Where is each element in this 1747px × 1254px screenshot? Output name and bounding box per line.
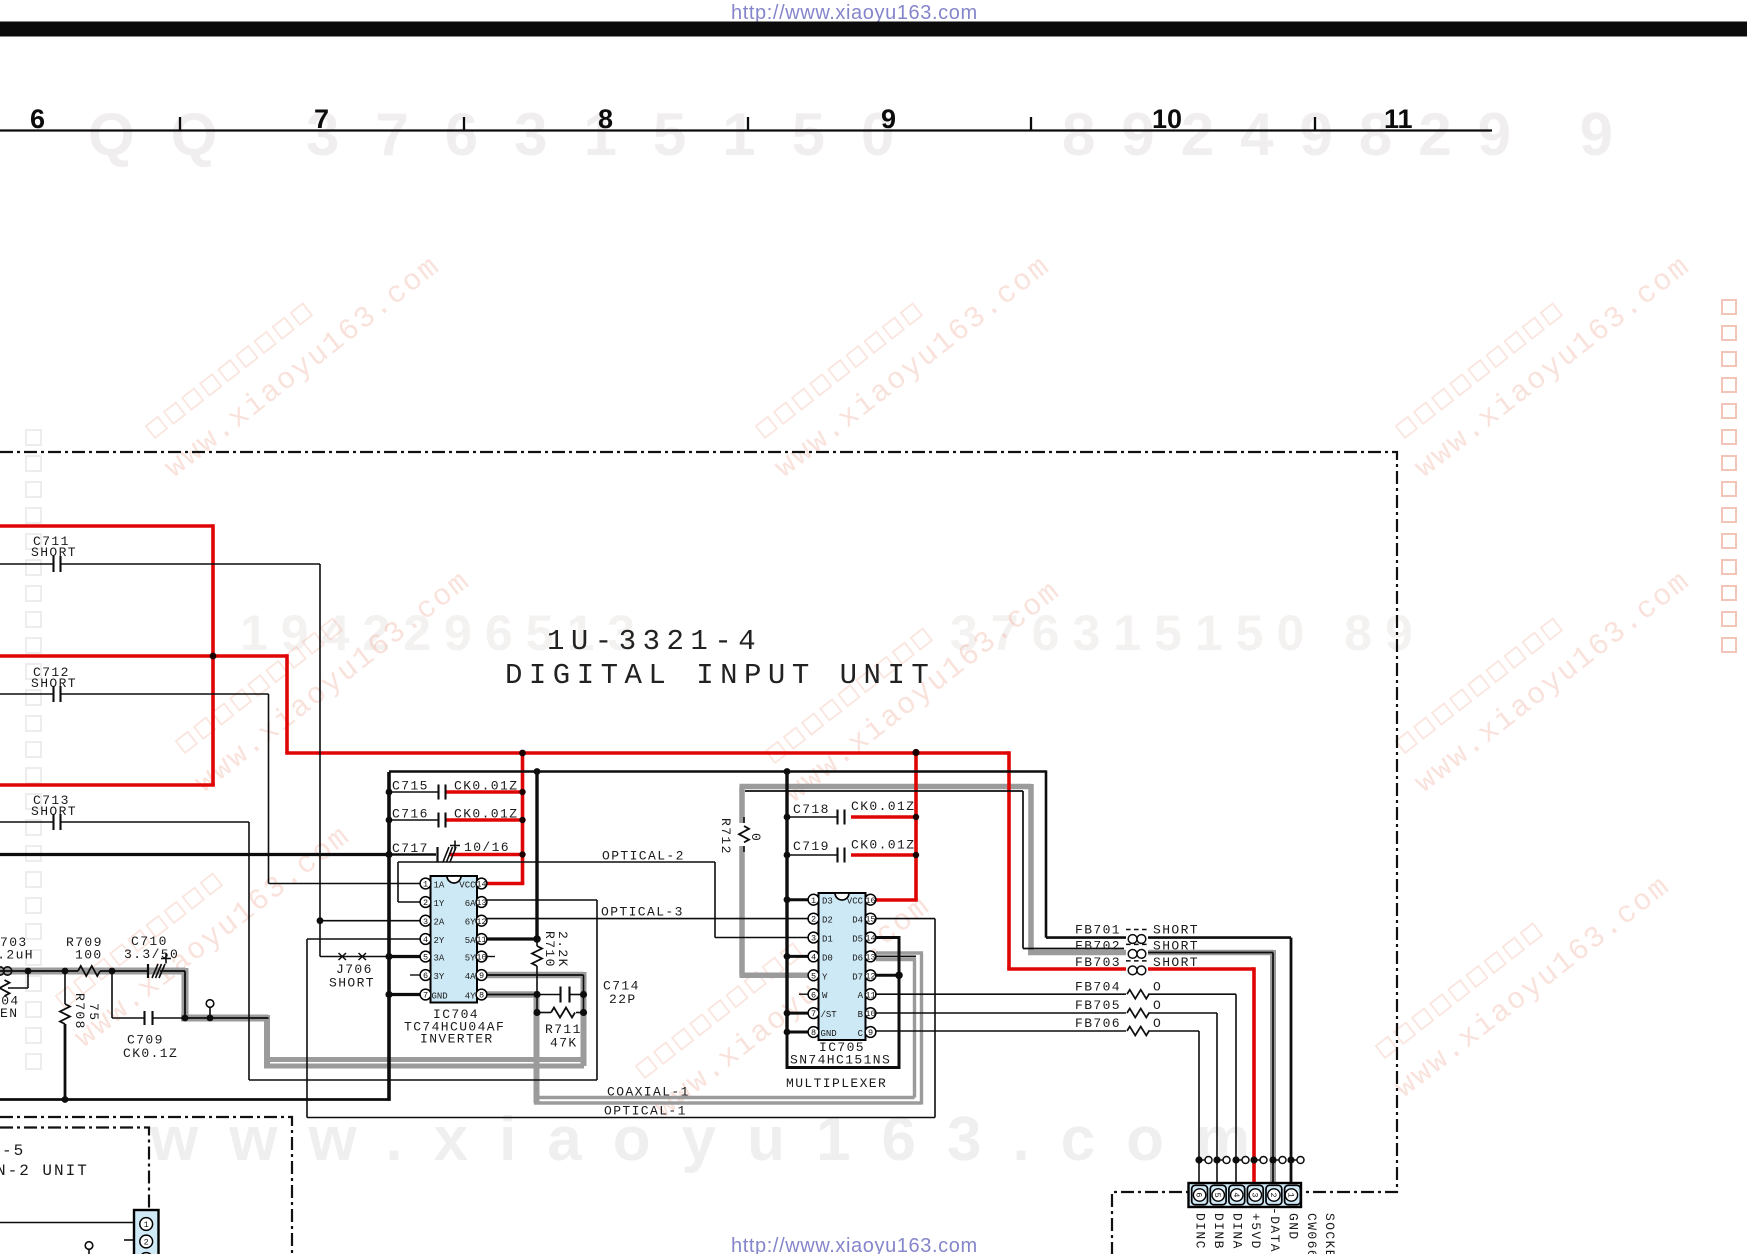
wire COAXIAL-1 outer vertical x921.5	[920, 953, 923, 1105]
wire C713 net vertical x597 up to IC704 pin13	[596, 900, 598, 1080]
junction red x916/y855 C719	[913, 852, 919, 858]
capacitor C714	[561, 987, 570, 1003]
wire red vertical x1009 down to FB703	[1007, 751, 1011, 969]
svg-text:13: 13	[476, 898, 486, 908]
wire coax core y948.5 into FB702	[1023, 948, 1124, 950]
svg-text:http://www.xiaoyu163.com: http://www.xiaoyu163.com	[731, 1235, 978, 1254]
dash-dot main unit border	[0, 452, 1397, 1254]
inductor L703 partial coil	[0, 967, 4, 975]
IC704 pin 2	[420, 897, 431, 908]
wire coax shield: left input bus horizontal	[0, 968, 185, 975]
wire C713 net y822 right of cap	[61, 821, 249, 823]
wire FB704 net right of ferrite	[1148, 993, 1236, 995]
IC704 pin 12	[476, 915, 487, 926]
capacitor C712	[54, 686, 61, 702]
svg-text:4A: 4A	[465, 972, 476, 982]
terminal open circle bottom-left	[85, 1242, 93, 1250]
wire coax shield vertical x583.5 from pin9 to G6	[581, 972, 587, 1066]
wire IC704 pin5 3A lead thick	[389, 955, 423, 958]
svg-text:15: 15	[865, 915, 875, 925]
wire FB706 net from IC705 pin9 C	[874, 1030, 1126, 1032]
capacitor C719	[838, 848, 845, 863]
dash-dot bottom-left unit border inner	[0, 1128, 149, 1210]
wire FB704 net vertical x1236 to connector pin4 DINA	[1235, 994, 1237, 1183]
wire coax core vertical x1273 to connector pin2 -DATA	[1272, 953, 1274, 1184]
pink diagonal watermark cluster row3 right	[1368, 843, 1678, 1106]
svg-text:0: 0	[748, 833, 763, 842]
svg-text:QQ 376315150: QQ 376315150	[88, 101, 930, 168]
wire IC705 pin7 /ST lead	[787, 1012, 811, 1015]
svg-text:1U-3321-4: 1U-3321-4	[547, 625, 762, 658]
wire red vertical x1254 down to connector pin3 +5VD	[1252, 967, 1256, 1183]
wire OPTICAL-1 net horizontal y1117.5	[307, 1117, 935, 1119]
jumper J706 cut marks	[339, 953, 367, 960]
svg-text:O: O	[1153, 980, 1162, 995]
junction ground x65 y1099.5	[62, 1096, 69, 1103]
svg-text:8: 8	[811, 1028, 816, 1038]
junction bus x28	[25, 968, 32, 975]
svg-text:5: 5	[1212, 1192, 1222, 1197]
svg-text:D7: D7	[852, 972, 863, 982]
IC705 pin 10	[865, 1008, 876, 1019]
svg-text:22P: 22P	[609, 992, 637, 1007]
wire terminal stub above left bus	[209, 1007, 211, 1018]
wire FB column terminal stubs y1160	[1199, 1159, 1300, 1161]
wire C717 lead to cap	[389, 853, 436, 855]
pink diagonal watermark cluster row3 left	[48, 793, 358, 1056]
IC704 pin 4	[420, 934, 431, 945]
wire ground line y1099.5	[0, 1098, 389, 1101]
wire coax core left bus y971 segment 1	[0, 970, 78, 972]
IC704 pin 1	[420, 878, 431, 889]
junction bus x65	[62, 968, 69, 975]
svg-text:C719: C719	[793, 839, 830, 854]
svg-text:7: 7	[811, 1009, 816, 1019]
svg-text:1: 1	[811, 896, 816, 906]
svg-text:5: 5	[423, 953, 428, 963]
wire FB705 net from IC705 pin10 B	[874, 1012, 1126, 1014]
junction x583.5 y1012.5	[580, 1009, 587, 1016]
wire C715 left lead	[389, 791, 438, 793]
svg-text:CK0.01Z: CK0.01Z	[454, 779, 518, 794]
svg-text:3Y: 3Y	[434, 972, 445, 982]
svg-text:14: 14	[865, 934, 875, 944]
IC704 pin 3	[420, 915, 431, 926]
svg-text:D3: D3	[822, 897, 833, 907]
wire OPTICAL-1 net vertical x307	[306, 939, 308, 1118]
wire FB702 shield row horizontal left of ferrite	[1028, 950, 1126, 956]
wire FB706 net vertical x1199 to connector pin6 DINC	[1198, 1031, 1200, 1183]
wire coax shield vertical x267	[264, 1015, 270, 1066]
wire C712 net y694 right of cap	[61, 693, 269, 695]
svg-text:6: 6	[423, 971, 428, 981]
IC705 pin 7	[808, 1008, 819, 1019]
ferrite bead FB703	[1128, 966, 1137, 975]
wire C711 net vertical x320	[319, 564, 321, 957]
wire IC705 GND loop down-right	[787, 938, 899, 1068]
resistor FB705 0 ohm	[1127, 1009, 1149, 1018]
wire C717 row thick y854.5	[0, 853, 389, 856]
svg-text:SHORT: SHORT	[31, 676, 77, 691]
svg-text:C718: C718	[793, 802, 830, 817]
svg-text:4Y: 4Y	[465, 992, 476, 1002]
resistor R712	[737, 823, 751, 846]
svg-text:5A: 5A	[465, 936, 476, 946]
wire coax core y791 parallel to shield	[745, 790, 1023, 792]
svg-text:7: 7	[314, 104, 329, 134]
svg-text:1: 1	[423, 880, 428, 890]
wire red FB703 row left of ferrite y969	[1007, 967, 1126, 971]
svg-text:SHORT: SHORT	[1153, 923, 1199, 938]
wire IC704 pin6 3Y stub	[410, 974, 420, 976]
svg-text:C717: C717	[392, 841, 429, 856]
svg-text:10: 10	[476, 953, 486, 963]
resistor R711	[551, 1008, 575, 1018]
wire R710 top lead from y772	[535, 772, 538, 940]
wire C711 net y564 right of cap to x320	[61, 563, 320, 565]
svg-text:12: 12	[476, 917, 486, 927]
wire C712 net y694 left of cap	[0, 693, 53, 695]
junction red x522.5/y854.5 C717	[519, 851, 525, 857]
svg-text:-DATA: -DATA	[1267, 1207, 1282, 1253]
svg-text:+5VD: +5VD	[1248, 1213, 1263, 1250]
connector CW066 pin 2 cell	[1266, 1185, 1282, 1204]
svg-text:CW066: CW066	[1304, 1213, 1319, 1254]
IC705 pin 3	[808, 932, 819, 943]
resistor R709	[78, 966, 100, 976]
wire C712 net vertical x268.5 to IC704 pin1	[268, 694, 270, 884]
wire red IC704 pin14 VCC lead y883.5	[487, 882, 524, 886]
wire red IC705 pin16 VCC lead y900	[874, 898, 918, 902]
svg-text:3: 3	[811, 934, 816, 944]
wire C711 net y564 left of cap	[0, 563, 53, 565]
resistor FB706 0 ohm	[1127, 1027, 1149, 1036]
svg-text:16: 16	[865, 896, 875, 906]
wire coax core vertical x1023	[1022, 791, 1024, 949]
wire coax core IC704 pin9 4A	[486, 974, 584, 976]
IC705 pin 16	[865, 894, 876, 905]
IC705 pin 9	[865, 1027, 876, 1038]
svg-text:O: O	[1153, 1016, 1162, 1031]
capacitor C715	[439, 785, 446, 800]
plus sign C717	[450, 841, 460, 851]
wire C714 row left lead	[537, 994, 560, 996]
svg-text:B: B	[858, 1010, 864, 1020]
ruler line	[0, 129, 1492, 131]
svg-text:7: 7	[423, 991, 428, 1001]
terminal circles FB columns y1160	[1205, 1157, 1212, 1164]
svg-text:DINB: DINB	[1211, 1213, 1226, 1250]
wire red C716 stub y820	[446, 818, 523, 822]
capacitor C716	[439, 813, 446, 828]
wire IC704 pin4 2Y lead	[307, 938, 423, 940]
junction red x916/y817 C718	[913, 814, 919, 820]
wire bottom-left terminal stub	[88, 1249, 90, 1254]
svg-text:2A: 2A	[434, 918, 445, 928]
svg-text:3: 3	[423, 917, 428, 927]
svg-text:1: 1	[144, 1220, 149, 1230]
wire gray bus G6 lower horizontal y1066	[264, 1064, 584, 1069]
wire IC705 pin1 D3 lead	[787, 898, 811, 901]
capacitor C711	[54, 556, 61, 572]
wire red vertical x522.5 to C715/C716/C717/IC704 pin14	[521, 753, 525, 884]
junction rail x389 y854.5 C717	[385, 851, 392, 858]
resistor R708	[60, 1004, 70, 1024]
svg-text:2: 2	[144, 1238, 149, 1248]
top black bar	[0, 22, 1747, 37]
pink diagonal watermark cluster row2 mid	[758, 548, 1068, 811]
IC705 pin 6	[808, 989, 819, 1000]
svg-text:CK0.01Z: CK0.01Z	[851, 838, 915, 853]
svg-text:FB701: FB701	[1075, 923, 1121, 938]
svg-text:GND: GND	[432, 992, 448, 1002]
wire coax core y1018 x185-268	[185, 1017, 269, 1019]
svg-text:6: 6	[811, 990, 816, 1000]
svg-text:R710: R710	[542, 931, 557, 968]
junction rail x787 y899.7 pin1	[784, 896, 791, 903]
IC704 pin 8	[476, 989, 487, 1000]
wire coax core left bus y971 segment 2	[100, 970, 148, 972]
wire coax core IC704 pin8 4Y	[486, 994, 537, 996]
wire IC705 pin13 D6 coax core	[874, 955, 916, 957]
svg-text:1.2uH: 1.2uH	[0, 948, 34, 963]
svg-text:75: 75	[86, 1003, 101, 1021]
junction red x522.5/y792 C715	[519, 789, 525, 795]
wire IC705 left rail vertical x787	[785, 772, 788, 1034]
wire R711 row left lead	[537, 1012, 551, 1014]
connector CW066 socket body	[1189, 1183, 1302, 1207]
svg-text:8: 8	[598, 104, 613, 134]
svg-text:3.3/50: 3.3/50	[124, 947, 179, 962]
ruler tick 1	[180, 117, 1315, 130]
svg-text:FB706: FB706	[1075, 1016, 1121, 1031]
junction x537 y771.5	[534, 768, 541, 775]
svg-text:C: C	[858, 1029, 864, 1039]
svg-text:R712: R712	[718, 818, 733, 855]
svg-text:6: 6	[1194, 1192, 1204, 1197]
svg-text:SHORT: SHORT	[31, 804, 77, 819]
wire VCC black top horizontal y771.5	[389, 770, 1046, 773]
right edge faint vertical watermark strip	[1722, 300, 1736, 314]
junction rail x787 y855 C719	[784, 852, 791, 859]
wire coax shield top horizontal y786.5	[740, 784, 1032, 790]
svg-text:CK0.01Z: CK0.01Z	[454, 807, 518, 822]
svg-text:D5: D5	[852, 935, 863, 945]
IC705 pin 1	[808, 894, 819, 905]
wire OPTICAL-1 net vertical x935 up to IC705 pin15	[934, 919, 936, 1118]
svg-text:A: A	[858, 991, 864, 1001]
wire red FB703 row right of ferrite	[1148, 967, 1254, 971]
junction C711 net to pin3 x320 y920.7	[317, 917, 324, 924]
svg-text:13: 13	[865, 953, 875, 963]
wire FB704 net from IC705 pin11 A	[874, 993, 1126, 995]
svg-text:12: 12	[865, 971, 875, 981]
wire OPTICAL-2 net horizontal y862	[398, 861, 715, 863]
junction red x522.5/y753	[519, 750, 526, 757]
svg-text:D0: D0	[822, 953, 833, 963]
wire IC704 pin13 6A lead	[484, 899, 597, 901]
IC705 pin 11	[865, 989, 876, 1000]
junction x583.5 y994.5	[580, 991, 587, 998]
svg-text:47K: 47K	[550, 1036, 578, 1051]
wire coax shield vertical x742 to IC705 pin5	[739, 787, 745, 976]
wire IC704 pin1 1A lead	[269, 883, 424, 885]
wire FB702 shield vertical x1273 down to connector pin2	[1270, 950, 1276, 1183]
IC704 pin 7	[420, 989, 431, 1000]
svg-text:CK0.01Z: CK0.01Z	[851, 799, 915, 814]
connector CW066 pin 1 cell	[1285, 1185, 1301, 1204]
svg-text:D1: D1	[822, 935, 833, 945]
capacitor C713	[54, 814, 61, 830]
wire coax core vertical x185	[184, 971, 186, 1018]
svg-text:/ST: /ST	[821, 1010, 838, 1020]
junction connector column x1254	[1250, 1156, 1257, 1163]
wire coax shield IC704 pin8 stub	[486, 991, 537, 998]
svg-text:N-2 UNIT: N-2 UNIT	[0, 1162, 89, 1180]
wire OPTICAL-2 net vertical x398	[397, 862, 399, 902]
wire FB701 net vertical x1291 to connector pin1 GND	[1290, 938, 1293, 1183]
svg-text:W: W	[822, 991, 828, 1001]
svg-text:OPTICAL-1: OPTICAL-1	[604, 1104, 687, 1119]
svg-text:SHORT: SHORT	[329, 976, 375, 991]
wire FB705 net right of ferrite	[1148, 1012, 1217, 1014]
svg-text:DINA: DINA	[1230, 1213, 1245, 1250]
connector bottom-left partial	[134, 1210, 159, 1254]
svg-text:D2: D2	[822, 916, 833, 926]
junction red x522.5/y820 C716	[519, 817, 525, 823]
svg-text:CK0.1Z: CK0.1Z	[123, 1046, 178, 1061]
svg-text:D4: D4	[852, 916, 863, 926]
junction connector column x1217	[1213, 1156, 1220, 1163]
resistor R704 partial at edge	[0, 980, 10, 996]
wire bottom-left connector pin2 stub	[124, 1239, 136, 1241]
IC704 pin 13	[476, 897, 487, 908]
junction connector column x1273	[1269, 1156, 1276, 1163]
capacitor C718	[838, 810, 845, 825]
terminal open circle above bus	[206, 1000, 214, 1008]
svg-text:1A: 1A	[434, 881, 445, 891]
resistor R710	[532, 946, 542, 966]
wire red vertical x916 to C718/C719/IC705 pin16	[914, 753, 918, 900]
wire C713 net y822 left of cap	[0, 821, 53, 823]
svg-text:6A: 6A	[465, 899, 476, 909]
wire C718 left lead	[787, 816, 837, 818]
op-amp/IC body IC705 SN74HC151NS	[819, 893, 866, 1040]
junction rail x389 y956.5 pin5	[385, 953, 392, 960]
left edge faint vertical watermark strip	[26, 430, 41, 445]
svg-text:C716: C716	[392, 807, 429, 822]
svg-text:Y: Y	[822, 972, 828, 982]
IC704 pin 11	[476, 934, 487, 945]
svg-text:SHORT: SHORT	[1153, 939, 1199, 954]
wire R712 bottom lead	[743, 842, 745, 852]
connector CW066 pin 3 cell	[1247, 1185, 1263, 1204]
svg-text:2: 2	[423, 898, 428, 908]
svg-text:2.2K: 2.2K	[555, 931, 570, 968]
IC705 pin 14	[865, 932, 876, 943]
wire C709 branch vertical x112	[111, 971, 113, 1018]
op-amp/IC body IC704 TC74HCU04AF	[431, 876, 478, 1003]
wire R704 lead horizontal	[8, 987, 28, 989]
IC704 pin 10	[476, 951, 487, 962]
wire IC705 pin14 D5 lead	[874, 936, 901, 939]
wire R711 row right lead	[576, 1012, 584, 1014]
IC705 pin 15	[865, 913, 876, 924]
junction bus corner x185 y1018	[182, 1015, 189, 1022]
IC705 pin 13	[865, 951, 876, 962]
wire bottom-left connector pin1 lead	[0, 1222, 136, 1224]
junction rail x389 y820 C716	[386, 817, 393, 824]
svg-text:-5: -5	[2, 1142, 25, 1160]
connector CW066 pin 5 cell	[1210, 1185, 1226, 1204]
IC704 pin 14	[476, 878, 487, 889]
wire R708 top lead	[64, 971, 66, 1004]
wire FB702 shield row horizontal right of ferrite	[1148, 950, 1273, 956]
svg-text:SOCKET: SOCKET	[1322, 1213, 1337, 1254]
wire C713 net horizontal y1080	[249, 1079, 597, 1081]
wire COAXIAL-1 inner vertical x914.5	[913, 960, 916, 1098]
svg-text:10: 10	[865, 1009, 875, 1019]
wire J706 jumper line y956.5	[320, 956, 389, 958]
wire R704 lead vertical to bus	[27, 971, 29, 988]
svg-text:FB704: FB704	[1075, 980, 1121, 995]
wire +5V red horizontal y656 from left	[0, 654, 287, 658]
wire IC705 pin6 W stub	[799, 993, 808, 995]
pink diagonal watermark cluster row2 right	[1388, 538, 1698, 801]
junction red x916/y753	[912, 749, 919, 756]
svg-text:11: 11	[476, 935, 486, 945]
dash-dot bottom-left unit border outer	[0, 1117, 292, 1254]
svg-text:COAXIAL-1: COAXIAL-1	[607, 1085, 690, 1100]
wire coax shield pair at IC705 pin13 upper	[876, 951, 923, 954]
wire OPTICAL-3 net IC704 pin12 6Y to IC705 pin2 D2	[484, 918, 811, 920]
svg-text:FB703: FB703	[1075, 955, 1121, 970]
svg-text:4: 4	[1231, 1192, 1241, 1197]
junction connector column x1236	[1232, 1156, 1239, 1163]
svg-text:2Y: 2Y	[434, 936, 445, 946]
IC705 pin 4	[808, 951, 819, 962]
svg-text:11: 11	[865, 990, 875, 1000]
svg-text:2: 2	[1268, 1192, 1278, 1197]
junction rail x787 y1013.1 pin7	[784, 1010, 791, 1017]
pink diagonal watermark cluster row3 mid	[628, 863, 938, 1126]
wire C709 branch left lead	[112, 1017, 144, 1019]
wire C716 left lead	[389, 819, 438, 821]
wire IC705 pin4 D0 lead	[787, 955, 811, 958]
wire COAXIAL-1 lower gray line	[534, 1101, 922, 1104]
wire IC705 pin8 GND lead	[787, 1031, 811, 1034]
svg-text:MULTIPLEXER: MULTIPLEXER	[786, 1076, 887, 1091]
wire coax core FB702 to connector y952.5	[1148, 952, 1273, 954]
bottom-left connector pin 2	[140, 1235, 153, 1248]
pink diagonal watermark cluster row2 left	[168, 538, 478, 801]
svg-text:9: 9	[479, 971, 484, 981]
wire C709 branch right lead	[153, 1017, 186, 1019]
wire FB701 net row left of ferrite	[1046, 936, 1126, 939]
svg-text:100: 100	[75, 948, 103, 963]
wire +B red C-shape upper horizontal y526	[0, 524, 213, 528]
svg-text:6Y: 6Y	[465, 918, 476, 928]
wire +5V red vertical x287	[285, 654, 289, 753]
wire IC704 pin11 5A lead thick	[484, 937, 539, 940]
svg-text:2: 2	[811, 915, 816, 925]
svg-text:GND: GND	[1286, 1213, 1301, 1241]
wire COAXIAL-1 upper gray line	[537, 1096, 915, 1099]
wire coax core left bus y971 segment 3	[160, 970, 185, 972]
IC705 pin 5	[808, 970, 819, 981]
capacitor C709	[145, 1011, 153, 1025]
wire IC704 pin7 GND lead thick	[389, 993, 423, 996]
